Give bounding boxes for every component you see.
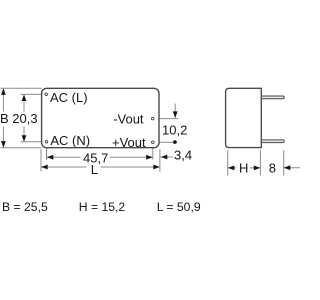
svg-text:-Vout: -Vout	[113, 111, 144, 126]
svg-text:H = 15,2: H = 15,2	[79, 200, 126, 214]
svg-text:AC (N): AC (N)	[50, 133, 90, 148]
svg-text:H: H	[239, 161, 248, 176]
svg-text:L: L	[91, 162, 98, 177]
svg-text:10,2: 10,2	[162, 123, 187, 138]
svg-text:B = 25,5: B = 25,5	[2, 200, 48, 214]
svg-text:3,4: 3,4	[174, 148, 192, 163]
svg-text:+Vout: +Vout	[112, 135, 146, 150]
svg-text:L = 50,9: L = 50,9	[157, 200, 201, 214]
svg-text:8: 8	[269, 161, 276, 176]
svg-text:AC (L): AC (L)	[50, 90, 88, 105]
svg-text:B 20,3: B 20,3	[0, 111, 38, 126]
